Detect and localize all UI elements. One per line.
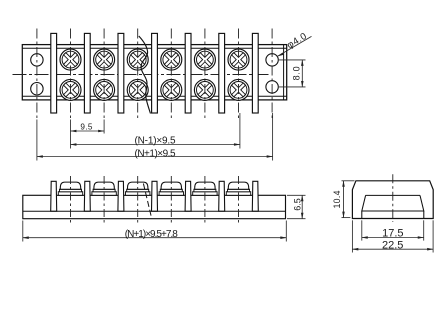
svg-text:8.0: 8.0 bbox=[291, 66, 301, 80]
svg-text:6.5: 6.5 bbox=[293, 198, 303, 211]
svg-text:(N-1)×9.5: (N-1)×9.5 bbox=[135, 136, 176, 147]
svg-text:(N+1)×9.5: (N+1)×9.5 bbox=[135, 148, 176, 159]
svg-text:17.5: 17.5 bbox=[382, 228, 403, 240]
svg-text:10.4: 10.4 bbox=[332, 190, 342, 208]
svg-text:9.5: 9.5 bbox=[80, 123, 92, 132]
svg-text:(N+1)×9.5+7.8: (N+1)×9.5+7.8 bbox=[125, 229, 178, 240]
svg-text:22.5: 22.5 bbox=[382, 240, 403, 252]
svg-text:φ4.0: φ4.0 bbox=[285, 31, 309, 51]
